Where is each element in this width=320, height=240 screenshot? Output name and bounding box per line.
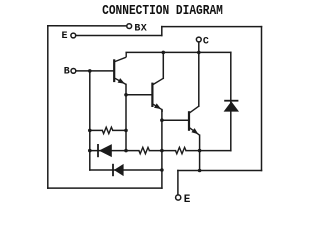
svg-text:CONNECTION DIAGRAM: CONNECTION DIAGRAM	[102, 2, 223, 19]
wire bottom rail left segment with D3	[90, 169, 162, 171]
wire rail1 left segment through D2	[90, 150, 139, 152]
node Q3 emitter on rail1	[198, 149, 202, 153]
wire Q3 emitter vertical	[199, 135, 201, 170]
wire Q3 base wire	[162, 119, 189, 121]
junction dots	[88, 51, 201, 173]
node Q1 emitter / Q2 base	[124, 93, 128, 97]
wire B vertical down to D3 rail	[89, 71, 91, 170]
resistor R1	[102, 127, 113, 133]
node rail1 left	[124, 149, 128, 153]
resistor R2	[139, 147, 150, 153]
node Q2 collector on top rail	[162, 51, 166, 55]
terminal C	[196, 37, 201, 42]
wire Q2 collector vertical	[162, 52, 164, 78]
node D2 left	[88, 149, 92, 153]
node bottom rail BX riser	[160, 168, 164, 172]
node B junction	[88, 69, 92, 73]
wire R1 rail left stub	[90, 129, 103, 131]
diode D2 cathode-left on rail1	[98, 144, 112, 157]
terminal E top	[71, 33, 76, 38]
svg-text:E: E	[184, 194, 191, 205]
node rail1 R2-R3 junction	[160, 149, 164, 153]
wire E jog up	[161, 27, 163, 36]
terminal BX	[127, 24, 132, 29]
terminal B	[71, 69, 76, 74]
resistor R3	[176, 147, 187, 153]
svg-text:C: C	[203, 37, 209, 48]
wire left edge of outer loop	[47, 26, 49, 188]
wire right edge	[261, 27, 263, 171]
node C on top rail	[197, 51, 201, 55]
wire rail1 mid segment	[149, 150, 175, 152]
wire Q2 base wire	[126, 94, 152, 96]
node Q3 emitter on bottom rail	[198, 169, 202, 173]
wire D1 branch vertical	[230, 52, 232, 150]
terminal E bottom	[176, 195, 181, 200]
wire B terminal to Q1 base	[76, 70, 114, 72]
wire rail1 right segment	[186, 150, 231, 152]
node R1 right	[124, 129, 128, 133]
node Q2 emitter / Q3 base	[160, 118, 164, 122]
wire C terminal drop through rail to Q3 collector	[198, 42, 200, 106]
wire BX loop top edge from outer corner to BX terminal	[48, 25, 127, 27]
svg-text:E: E	[62, 31, 68, 42]
svg-text:B: B	[64, 67, 70, 78]
wire bottom E rail right segment	[178, 170, 262, 172]
transistor Q2	[152, 78, 163, 112]
wire E bottom terminal drop	[177, 171, 179, 195]
node R1 left	[88, 129, 92, 133]
svg-text:BX: BX	[134, 23, 147, 34]
wire E top terminal lead	[76, 35, 162, 37]
transistor Q3	[189, 106, 200, 135]
diode D1 freewheel cathode-up on x=230.8	[224, 101, 239, 112]
wire top collector rail	[126, 51, 231, 53]
wire Q1 emitter vertical	[125, 84, 127, 150]
wire BX riser x=162 up to Q2 emitter	[161, 110, 163, 189]
wire bottom edge of outer loop	[48, 187, 162, 189]
wire R1 rail right stub	[113, 129, 126, 131]
wire top E rail to right edge	[162, 26, 262, 28]
transistor Q1	[114, 52, 126, 84]
diode D3 cathode-left on bottom rail	[113, 164, 124, 176]
